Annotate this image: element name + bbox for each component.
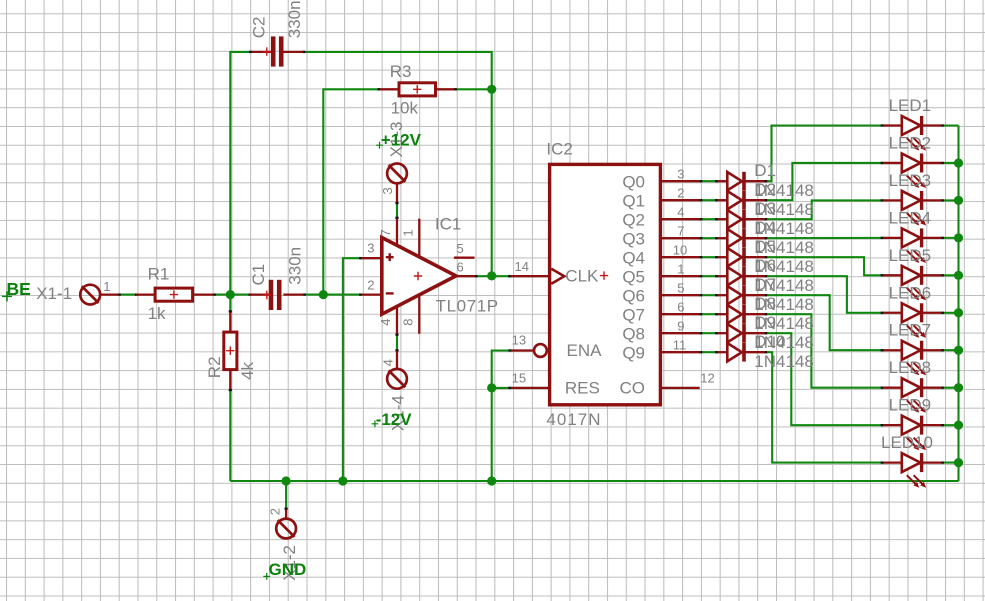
wire IC2 Q3 pin to diode D4	[700, 237, 718, 239]
svg-text:4: 4	[378, 318, 393, 325]
junction R3 right on main vertical	[487, 85, 496, 94]
wire IC2 Q8 pin to diode D9	[700, 332, 718, 334]
counter IC2 4017N body	[511, 164, 700, 404]
svg-text:LED4: LED4	[889, 208, 932, 227]
svg-text:LED5: LED5	[889, 246, 932, 265]
wire LED1 cathode to right rail	[942, 124, 959, 126]
LED9	[883, 416, 942, 451]
wire diode D10 cathode to LED10 anode	[765, 352, 883, 462]
svg-text:IC2: IC2	[546, 139, 572, 158]
wire IC2 Q4 pin to diode D5	[700, 256, 718, 258]
LED6	[883, 303, 942, 338]
wire ground rail drop to X1-2 GND pad	[285, 481, 287, 510]
svg-text:LED9: LED9	[889, 396, 932, 415]
diode D9	[718, 324, 765, 343]
svg-text:Q9: Q9	[622, 344, 645, 363]
svg-text:D1: D1	[754, 161, 776, 180]
IC2 output pin Q3	[662, 237, 700, 239]
wire diode D7 cathode to LED7 anode	[765, 295, 883, 350]
svg-text:CLK: CLK	[565, 267, 599, 286]
svg-text:-12V: -12V	[376, 410, 413, 429]
connector pad X1-1	[80, 285, 118, 305]
junction node A (R1/C1/C2/R2)	[226, 290, 235, 299]
svg-text:C2: C2	[249, 17, 268, 39]
svg-text:14: 14	[515, 259, 529, 274]
svg-text:3: 3	[380, 187, 395, 194]
junction GND drop at ground rail	[282, 476, 291, 485]
junction ENA/RES riser	[487, 383, 496, 392]
wire IC2 Q6 pin to diode D7	[700, 294, 718, 296]
wire +12V pad to op-amp pin 7	[396, 202, 398, 218]
svg-text:6: 6	[677, 299, 684, 314]
svg-text:2: 2	[677, 185, 684, 200]
svg-text:LED3: LED3	[889, 171, 932, 190]
svg-text:7: 7	[677, 223, 684, 238]
LED7	[883, 341, 942, 376]
svg-text:15: 15	[512, 371, 526, 386]
svg-text:RES: RES	[565, 379, 600, 398]
svg-text:1N4148: 1N4148	[754, 352, 814, 371]
svg-text:D6: D6	[754, 256, 776, 275]
wire top run C2 right to main vertical	[303, 52, 492, 89]
junction LED2 row on right rail	[954, 158, 963, 167]
svg-text:D3: D3	[754, 199, 776, 218]
IC2 output pin Q9	[662, 351, 700, 353]
svg-text:LED1: LED1	[889, 96, 932, 115]
wire IC2 Q0 pin to diode D1	[700, 180, 718, 182]
wire R3 right to main vertical	[455, 88, 492, 90]
svg-text:330n: 330n	[285, 0, 304, 38]
resistor R1	[136, 288, 213, 301]
wire LED3 cathode to right rail	[942, 199, 959, 201]
net label BE	[2, 279, 31, 302]
svg-text:1k: 1k	[148, 304, 166, 323]
svg-text:D4: D4	[754, 218, 776, 237]
svg-text:Q2: Q2	[622, 211, 645, 230]
svg-text:+12V: +12V	[381, 131, 422, 150]
wire diode D5 cathode to LED5 anode	[765, 257, 883, 275]
junction LED3 row on right rail	[954, 196, 963, 205]
IC2 output pin Q7	[662, 313, 700, 315]
net label +12V	[376, 131, 422, 150]
svg-text:12: 12	[700, 371, 714, 386]
wire diode D2 cathode to LED2 anode	[765, 163, 883, 200]
junction pin3 riser at ground rail	[338, 476, 347, 485]
svg-text:2: 2	[267, 508, 282, 515]
junction LED8 row on right rail	[954, 383, 963, 392]
diode D4	[718, 229, 765, 248]
svg-text:1: 1	[677, 261, 684, 276]
supply pad X1-3 +12V	[387, 164, 407, 203]
svg-text:CO: CO	[620, 378, 646, 397]
svg-text:D5: D5	[754, 237, 776, 256]
wire node B: C1 right to junction B	[304, 294, 324, 296]
resistor R2	[224, 312, 237, 389]
svg-text:4017N: 4017N	[546, 410, 601, 429]
net label GND	[263, 560, 306, 580]
wire LED4 cathode to right rail	[942, 237, 959, 239]
wire LED10 cathode to right rail	[942, 462, 959, 464]
wire op-amp output to IC2 CLK pin 14	[475, 275, 510, 277]
svg-text:9: 9	[677, 318, 684, 333]
op-amp IC1 TL071P	[362, 219, 476, 334]
diode D8	[718, 305, 765, 324]
wire diode D9 cathode to LED9 anode	[765, 333, 883, 425]
IC2 output pin Q4	[662, 256, 700, 258]
svg-text:LED2: LED2	[889, 133, 932, 152]
wire diode D1 cathode to LED1 anode	[765, 126, 883, 182]
svg-text:2: 2	[367, 277, 374, 292]
svg-text:5: 5	[457, 241, 464, 256]
resistor R3	[380, 83, 455, 96]
svg-text:LED8: LED8	[889, 358, 932, 377]
svg-text:Q4: Q4	[622, 249, 645, 268]
svg-text:R2: R2	[205, 356, 224, 378]
wire riser from RES junction down to ground rail	[491, 388, 493, 481]
wire LED5 cathode to right rail	[942, 274, 959, 276]
junction LED5 row on right rail	[954, 271, 963, 280]
wire node A vertical up to C2 and top feedback run	[230, 52, 251, 295]
diode D7	[718, 286, 765, 305]
svg-text:6: 6	[457, 259, 464, 274]
svg-text:R3: R3	[390, 62, 412, 81]
svg-text:13: 13	[512, 332, 526, 347]
svg-text:GND: GND	[269, 560, 307, 579]
svg-text:10k: 10k	[391, 98, 419, 117]
svg-text:3: 3	[677, 166, 684, 181]
LED5	[883, 266, 942, 301]
wire net BE from X1-1 pad to R1	[118, 294, 137, 296]
wire diode D4 cathode to LED4 anode	[765, 237, 883, 239]
IC2 output pin Q2	[662, 218, 700, 220]
svg-text:1: 1	[103, 279, 110, 294]
wire op-amp pin 4 to -12V pad	[396, 334, 398, 351]
LED2	[883, 153, 942, 188]
junction LED10 row on right rail	[954, 458, 963, 467]
svg-text:5: 5	[677, 280, 684, 295]
wire node A to C1 left	[230, 294, 249, 296]
svg-text:4: 4	[677, 204, 684, 219]
wire IC2 Q2 pin to diode D3	[700, 218, 718, 220]
wire LED7 cathode to right rail	[942, 349, 959, 351]
junction LED6 row on right rail	[954, 308, 963, 317]
svg-text:X1-1: X1-1	[36, 284, 72, 303]
wire LED6 cathode to right rail	[942, 312, 959, 314]
svg-text:C1: C1	[249, 264, 268, 286]
supply pad X1-4 -12V	[387, 351, 407, 388]
diode D5	[718, 248, 765, 267]
wire IC2 Q5 pin to diode D6	[700, 275, 718, 277]
wire diode D6 cathode to LED6 anode	[765, 276, 883, 313]
junction node B (C1/R3/pin2)	[319, 290, 328, 299]
wire LED2 cathode to right rail	[942, 162, 959, 164]
svg-text:IC1: IC1	[435, 215, 461, 234]
junction LED7 row on right rail	[954, 346, 963, 355]
LED8	[883, 378, 942, 413]
diode D3	[718, 210, 765, 229]
LED4	[883, 228, 942, 263]
wire node B vertical up to R3 left	[323, 89, 380, 294]
diode D10	[718, 343, 765, 362]
IC2 output pin Q6	[662, 294, 700, 296]
svg-text:4k: 4k	[238, 361, 257, 379]
ground pad X1-2 GND	[276, 510, 296, 539]
IC2 output pin Q0	[662, 180, 700, 182]
IC2 output pin Q8	[662, 332, 700, 334]
IC2 output pin Q5	[662, 275, 700, 277]
svg-text:Q3: Q3	[622, 230, 645, 249]
wire RES pin 15 stub to riser	[492, 387, 511, 389]
net label -12V	[372, 410, 413, 429]
wire ENA pin 13 to ground riser	[492, 351, 511, 388]
svg-text:11: 11	[673, 337, 687, 352]
wire LED9 cathode to right rail	[942, 424, 959, 426]
diode D2	[718, 191, 765, 210]
wire R2 bottom to ground rail	[229, 389, 231, 481]
wire IC2 Q9 pin to diode D10	[700, 351, 718, 353]
wire diode D8 cathode to LED8 anode	[765, 314, 883, 387]
svg-text:Q8: Q8	[622, 325, 645, 344]
wire node B to op-amp pin 2	[323, 294, 361, 296]
svg-text:D7: D7	[754, 275, 776, 294]
svg-text:Q6: Q6	[622, 287, 645, 306]
svg-text:Q7: Q7	[622, 306, 645, 325]
junction main vertical at ground rail	[487, 476, 496, 485]
svg-text:R1: R1	[148, 264, 170, 283]
svg-text:D2: D2	[754, 180, 776, 199]
wire IC2 Q1 pin to diode D2	[700, 199, 718, 201]
svg-text:4: 4	[381, 359, 396, 366]
svg-text:ENA: ENA	[567, 341, 603, 360]
svg-text:3: 3	[367, 241, 374, 256]
wire ground rail along bottom	[230, 480, 958, 482]
LED3	[883, 191, 942, 226]
svg-text:D9: D9	[754, 313, 776, 332]
svg-text:D8: D8	[754, 294, 776, 313]
svg-text:Q5: Q5	[622, 268, 645, 287]
svg-text:D10: D10	[754, 332, 785, 351]
svg-text:1: 1	[401, 229, 416, 236]
svg-text:Q1: Q1	[622, 192, 645, 211]
diode D6	[718, 267, 765, 286]
svg-text:LED7: LED7	[889, 321, 932, 340]
wire node A: R1 right to junction	[214, 294, 231, 296]
LED1	[883, 116, 942, 151]
svg-text:8: 8	[401, 318, 416, 325]
wire LED8 cathode to right rail	[942, 387, 959, 389]
IC2 output pin Q1	[662, 199, 700, 201]
junction LED9 row on right rail	[954, 421, 963, 430]
capacitor C2	[252, 36, 303, 66]
diode D1	[718, 172, 765, 191]
wire right LED rail vertical	[957, 126, 959, 482]
svg-text:TL071P: TL071P	[436, 297, 499, 316]
junction op-amp output / CLK	[487, 271, 496, 280]
wire op-amp pin 3 to ground riser	[343, 258, 362, 481]
wire main vertical R3 junction to output junction	[491, 89, 493, 276]
junction LED4 row on right rail	[954, 233, 963, 242]
wire IC2 Q7 pin to diode D8	[700, 313, 718, 315]
svg-text:330n: 330n	[285, 247, 304, 285]
capacitor C1	[249, 280, 303, 310]
svg-text:LED10: LED10	[881, 433, 933, 452]
wire diode D3 cathode to LED3 anode	[765, 200, 883, 219]
svg-text:10: 10	[673, 242, 687, 257]
svg-text:LED6: LED6	[889, 283, 932, 302]
svg-text:7: 7	[378, 229, 393, 236]
LED10	[883, 453, 942, 488]
wire R2 top pin link	[229, 295, 231, 313]
svg-text:Q0: Q0	[622, 173, 645, 192]
